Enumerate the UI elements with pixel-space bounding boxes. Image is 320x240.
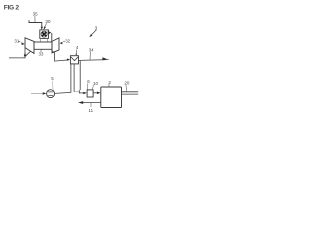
filter outlet line to downpipe bbox=[55, 92, 71, 93]
exhaust unit 4 (box with V flap) bbox=[70, 56, 78, 64]
turbine outlet duct bbox=[52, 51, 67, 61]
flow arrow into filter 5 bbox=[43, 92, 47, 95]
engine 2 (large box) bbox=[101, 87, 122, 108]
svg-text:11: 11 bbox=[89, 108, 94, 113]
svg-text:5: 5 bbox=[51, 76, 54, 81]
air inlet duct to compressor bbox=[9, 48, 25, 58]
charge air cooler 10 (small box) bbox=[87, 90, 93, 97]
leader for 35 bbox=[34, 16, 36, 22]
arrowhead of wire 35 onto motor bbox=[41, 27, 43, 30]
line cooler to engine with arrow bbox=[93, 92, 98, 94]
flow arrow into muffler 4 bbox=[67, 59, 70, 61]
svg-text:33: 33 bbox=[39, 52, 44, 57]
flow arrow up into compressor bbox=[24, 52, 27, 56]
svg-text:35: 35 bbox=[33, 11, 39, 16]
exhaust line 34 bbox=[79, 59, 109, 62]
bearing housing (shaft casing) bbox=[34, 42, 52, 49]
leader for 5 bbox=[51, 81, 54, 90]
svg-text:FIG 2: FIG 2 bbox=[4, 4, 20, 11]
leader for 10 bbox=[92, 85, 93, 90]
motor mount stems bbox=[41, 38, 48, 42]
leader for 20 bbox=[125, 85, 128, 92]
svg-text:20: 20 bbox=[124, 80, 130, 85]
short link wall bbox=[74, 91, 79, 93]
inlet duct diagonal bbox=[25, 52, 30, 57]
leader for 4 bbox=[75, 50, 77, 54]
air filter 5 (circle with hatch) bbox=[47, 90, 55, 98]
leader for 6 bbox=[87, 83, 89, 89]
exhaust manifold double line 20 bbox=[122, 92, 139, 94]
leader arrow 3 (points at turbocharger) bbox=[91, 30, 96, 35]
turbine inlet stub bbox=[51, 33, 53, 42]
leader for 30 bbox=[45, 23, 47, 27]
svg-text:31: 31 bbox=[14, 39, 19, 44]
leader for 34 bbox=[89, 52, 91, 60]
return line 11 out of engine bbox=[83, 102, 101, 104]
wire 35 (electric supply line) bbox=[29, 20, 42, 27]
leader arrow 32 bbox=[63, 40, 65, 42]
svg-text:2: 2 bbox=[108, 80, 111, 86]
ambient air inlet line bbox=[31, 92, 43, 94]
turbine wheel 32 bbox=[52, 38, 59, 53]
leader arrow 31 bbox=[18, 40, 21, 43]
leader for 2 bbox=[108, 84, 110, 87]
leader for 11 bbox=[90, 103, 92, 107]
recirculation line from exhaust down bbox=[79, 61, 81, 90]
flow arrow at housing top right bbox=[48, 31, 52, 35]
svg-text:6: 6 bbox=[87, 79, 90, 84]
downpipe from unit 4 (double wall) bbox=[71, 64, 74, 93]
arrowhead of leader 30 bbox=[44, 26, 46, 29]
fan rotor inside motor bbox=[41, 31, 47, 37]
svg-text:10: 10 bbox=[93, 81, 99, 86]
flow arrow on line 34 bbox=[102, 57, 107, 60]
svg-text:4: 4 bbox=[76, 45, 79, 50]
svg-text:34: 34 bbox=[89, 47, 94, 52]
compressor wheel 31 bbox=[25, 38, 34, 54]
charge line arrow into cooler 10 bbox=[83, 92, 87, 95]
leader for 33 bbox=[40, 50, 42, 53]
svg-text:32: 32 bbox=[65, 39, 70, 44]
electric motor M30 (box with fan symbol) bbox=[40, 30, 49, 39]
